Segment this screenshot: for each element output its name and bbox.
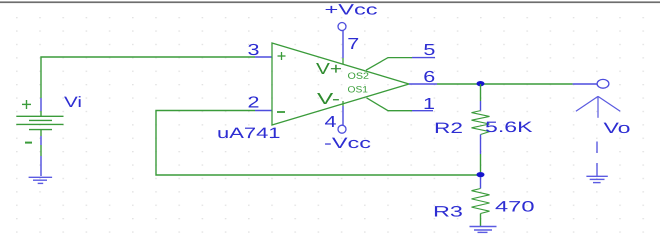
svg-text:OS1: OS1 [347,84,368,94]
svg-text:5.6K: 5.6K [485,119,533,136]
svg-text:470: 470 [495,199,535,216]
power terminal -Vcc, pin 4 [342,101,344,106]
junction node (feedback / R3) [477,172,485,177]
svg-text:Vo: Vo [604,120,631,137]
svg-text:4: 4 [325,114,337,131]
ground (output) [586,163,607,183]
svg-text:Vi: Vi [64,94,82,111]
wire: pin 2 blue stub [255,110,272,112]
resistor R3 [480,177,482,189]
svg-text:7: 7 [347,36,359,53]
wire: feedback to pin 2 [156,111,477,176]
pin 5 (OS2) [366,58,412,71]
voltage source Vi [16,100,63,156]
op-amp U1 uA741 [272,43,409,125]
svg-text:uA741: uA741 [217,125,281,142]
wire: Vi top to pin 3 [41,57,255,98]
ground (source) [29,177,52,183]
svg-text:+Vcc: +Vcc [325,2,379,19]
power terminal +Vcc, pin 7 [338,23,346,31]
svg-text:V+: V+ [316,61,342,78]
svg-text:V-: V- [317,91,340,108]
svg-text:5: 5 [423,42,435,59]
svg-text:R2: R2 [434,120,463,137]
svg-text:6: 6 [423,69,435,86]
pin 6 output stub [409,83,437,85]
svg-text:R3: R3 [433,204,463,221]
svg-text:1: 1 [423,96,435,113]
svg-text:2: 2 [248,95,260,112]
output terminal Vo [573,83,598,85]
svg-text:OS2: OS2 [347,71,369,81]
junction node (output / R2) [477,81,485,86]
ground (below R3) [470,227,497,233]
resistor R2 [480,84,482,101]
wire: dash to output ground [596,142,598,154]
probe arrow [576,96,620,117]
svg-text:3: 3 [248,42,260,59]
wire: output [437,83,573,85]
wire: pin 3 blue stub [255,56,272,58]
svg-text:-Vcc: -Vcc [324,135,372,152]
pin 1 (OS1) [367,98,413,111]
